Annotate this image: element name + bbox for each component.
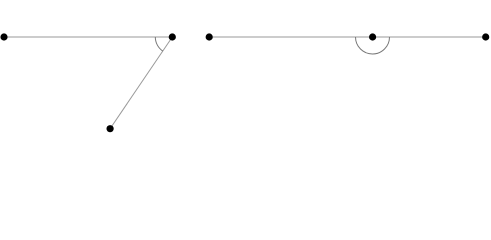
point E	[482, 33, 489, 40]
straight-angle semicircle arc at F	[356, 37, 390, 54]
point B (vertex)	[169, 33, 176, 40]
angle arc at vertex B	[155, 37, 162, 51]
point A	[0, 33, 7, 40]
point C	[107, 125, 114, 132]
ray B-C (down-left)	[110, 37, 172, 129]
segment left figure: horizontal line A-B	[4, 36, 172, 38]
segment right figure: horizontal line D-E	[209, 36, 486, 38]
point F (middle)	[369, 33, 376, 40]
point D	[206, 33, 213, 40]
